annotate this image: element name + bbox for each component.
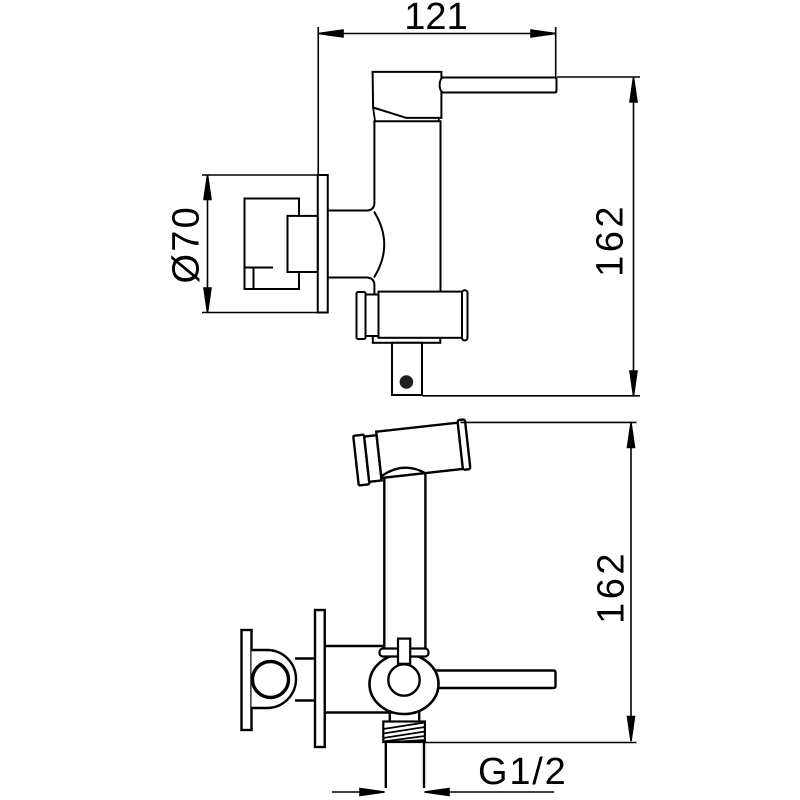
sprayer head lower bbox=[353, 419, 471, 485]
svg-text:G1/2: G1/2 bbox=[478, 751, 568, 793]
extension line top of diameter 70 bbox=[202, 174, 329, 176]
svg-text:162: 162 bbox=[591, 550, 633, 624]
dimension line diameter 70 bbox=[204, 175, 211, 313]
sprayer neck hump bbox=[381, 468, 426, 477]
holder right cap bbox=[462, 290, 468, 340]
sprayer shaft bbox=[384, 474, 425, 649]
dimension text diameter 70 bbox=[166, 205, 208, 283]
holder left cap bbox=[357, 292, 366, 339]
dimension line 162 lower bbox=[628, 423, 635, 741]
svg-text:121: 121 bbox=[404, 0, 467, 38]
valve lever bar bbox=[430, 671, 556, 689]
holder cylinder bbox=[379, 292, 463, 338]
extension line bottom of 162 upper bbox=[423, 395, 641, 397]
faucet lever handle bbox=[440, 78, 557, 93]
body contour arc bbox=[374, 212, 384, 278]
knob to plate pipe bbox=[295, 659, 315, 701]
dimension text 121 bbox=[404, 0, 467, 38]
dimension text G1/2 bbox=[478, 751, 568, 793]
valve handle bar bbox=[242, 630, 252, 730]
valve collar bbox=[380, 649, 429, 657]
set screw tab bbox=[398, 639, 410, 664]
docked sprayer handle bbox=[392, 343, 422, 395]
valve ball body bbox=[370, 654, 439, 714]
extension line top of 162 upper bbox=[557, 76, 640, 78]
svg-text:Ø70: Ø70 bbox=[166, 205, 208, 283]
knob inner circle bbox=[253, 662, 289, 698]
holder neck bbox=[366, 295, 379, 337]
faucet spout head bbox=[373, 72, 442, 118]
threaded outlet bbox=[383, 722, 425, 743]
holder bracket plate bbox=[373, 330, 441, 343]
extension line right of 121 bbox=[555, 27, 557, 91]
valve outlet neck bbox=[390, 710, 419, 722]
wall plate lower bbox=[315, 610, 325, 747]
valve knob stem bbox=[252, 650, 297, 708]
extension line top of 162 lower bbox=[461, 421, 637, 423]
in-wall body notch bbox=[245, 268, 274, 290]
faucet body column bbox=[328, 121, 441, 294]
dimension line 162 upper bbox=[630, 78, 637, 396]
handle button dot bbox=[400, 375, 414, 389]
in-wall connector block bbox=[288, 216, 318, 272]
in-wall valve body bbox=[245, 199, 300, 290]
ball inner circle bbox=[388, 664, 419, 695]
dimension line G1/2 bbox=[332, 789, 554, 796]
plate to ball pipe bbox=[325, 646, 392, 713]
seam below spout head bbox=[373, 108, 439, 122]
dimension text 162 lower bbox=[591, 550, 633, 624]
dimension line 121 bbox=[319, 30, 556, 37]
wall plate upper bbox=[318, 175, 328, 313]
thread hatch lines bbox=[383, 723, 425, 743]
extension line left of 121 bbox=[317, 27, 319, 175]
dimension text 162 upper bbox=[590, 203, 632, 277]
svg-text:162: 162 bbox=[590, 203, 632, 277]
extension line bottom of diameter 70 bbox=[202, 312, 329, 314]
extension line bottom of 162 lower bbox=[425, 742, 637, 744]
outlet pipe bbox=[386, 742, 424, 788]
